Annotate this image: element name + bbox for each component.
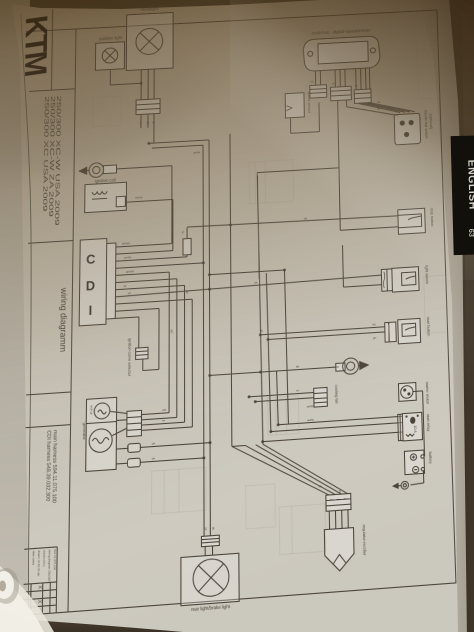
light switch [392, 265, 429, 292]
battery ground lead [410, 471, 424, 485]
rear light/brake light [181, 553, 239, 613]
node bus285 left [208, 273, 211, 276]
bus wire y147 [149, 140, 209, 143]
fuse on CDI feed [181, 227, 191, 257]
sidebar divider above harness list [26, 425, 71, 428]
start button [398, 317, 431, 344]
sidebar model list [41, 95, 62, 226]
generator to connector wires [110, 410, 127, 435]
CDI unit [79, 238, 116, 326]
sidebar divider under logo [29, 89, 75, 92]
white curled sheet bottom-left [0, 566, 54, 632]
connector X2 [310, 85, 327, 98]
speedometer wires to connectors [315, 68, 369, 92]
trunk wires mid [257, 171, 288, 445]
headlight H1 [126, 5, 173, 70]
node junction under headlight [147, 142, 150, 145]
wire labels misc [169, 77, 367, 506]
node ring wire crossing [259, 371, 262, 374]
ground [392, 481, 409, 490]
wire position light down and right [110, 69, 141, 85]
node fan a [248, 395, 251, 398]
ignition coil [85, 177, 127, 213]
connector X3 [330, 86, 351, 101]
white ring object [0, 568, 19, 604]
KTM logo [18, 10, 54, 83]
node tail trunk b [202, 456, 205, 459]
node fan b [254, 400, 257, 403]
wire headlight to connector X1 [141, 69, 154, 100]
bottom dark band under curled page edge [0, 609, 260, 632]
right page-edge shadow [0, 0, 1, 1]
node relay b [269, 430, 272, 433]
light switch connector [381, 269, 392, 291]
node CDI tail feed [202, 261, 205, 264]
regulator connector [326, 493, 351, 511]
ignition curve selector [127, 337, 148, 377]
start relay [398, 412, 431, 441]
position light L1 [95, 35, 124, 70]
svg-text:ENGLISH: ENGLISH [465, 159, 474, 209]
sidebar left border (page curls near spine) [21, 14, 31, 616]
bus wire y186 to speedometer [257, 97, 400, 292]
wires below connector X1 [139, 114, 156, 144]
generator AC plugs [116, 437, 210, 468]
ring connector with arrow [296, 357, 370, 378]
svg-text:63: 63 [467, 229, 474, 238]
bus wire y285 [209, 270, 284, 275]
CDI pin wires [114, 125, 385, 454]
speed sensor loop wires [290, 102, 319, 133]
stop button [398, 208, 435, 235]
ENGLISH tab [451, 135, 474, 255]
regulator-rectifier [324, 525, 367, 572]
speed sensor [284, 91, 311, 118]
title block tiny text [26, 549, 57, 605]
connector X1 [136, 99, 160, 115]
node relay a [277, 423, 280, 426]
ring connector wire [210, 367, 339, 376]
battery [404, 449, 432, 474]
node stop wire [229, 223, 232, 226]
spark plug [78, 162, 119, 179]
node on headlight feed [140, 82, 143, 85]
start relay wires [263, 412, 403, 442]
stop button wire [187, 211, 398, 229]
rear light leads [205, 546, 212, 556]
node start wires b [267, 338, 270, 341]
node tail trunk a [209, 441, 212, 444]
node light switch feed to tail [208, 288, 211, 291]
sidebar divider above harness list [26, 392, 71, 395]
spark plug lead [117, 166, 172, 169]
ignition coil lead [125, 193, 173, 253]
regulator leads [329, 510, 348, 530]
bus wire y155 [152, 145, 203, 148]
cooling fan wires [249, 387, 314, 402]
start button connector [385, 322, 397, 342]
cooling fan [314, 385, 339, 408]
darker top-right [230, 0, 474, 280]
sidebar divider under model list [28, 241, 73, 244]
node relay c [261, 440, 264, 443]
node bus285 [283, 268, 286, 271]
rear light trunk [203, 140, 210, 536]
title block [23, 547, 57, 615]
connector X4 [354, 89, 371, 103]
generator connector [127, 410, 142, 436]
multi-func.-digital-speedometer [303, 27, 380, 71]
underlying sheet on the left [0, 0, 32, 632]
node ring wire [208, 374, 211, 377]
rear light connector [201, 526, 219, 546]
generator fan-out wires [141, 406, 192, 431]
sidebar harness numbers [44, 430, 58, 504]
generator [81, 397, 116, 471]
regulator feed diagonals [232, 439, 348, 502]
ghost print-through boxes [88, 40, 455, 568]
starter motor [398, 382, 429, 407]
start button wires [260, 322, 385, 348]
handlebar bundle wires [347, 96, 415, 118]
starter motor lead to battery feed [413, 391, 425, 457]
node start wires [259, 333, 262, 336]
handle bar switch [394, 110, 433, 145]
